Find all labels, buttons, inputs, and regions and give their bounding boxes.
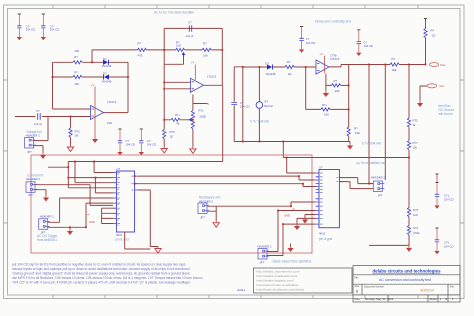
svg-text:LT1013: LT1013 xyxy=(207,75,217,79)
svg-text:47E: 47E xyxy=(74,49,79,53)
svg-text:+V: +V xyxy=(292,207,296,211)
svg-text:GND: GND xyxy=(284,214,290,218)
svg-text:Diode and Continuity test: Diode and Continuity test xyxy=(315,19,351,23)
svg-text:R?: R? xyxy=(334,79,338,83)
svg-text:47E: 47E xyxy=(138,54,143,58)
svg-text:R?7: R?7 xyxy=(413,141,419,145)
svg-text:HEADER 2: HEADER 2 xyxy=(371,175,385,179)
svg-text:1E: 1E xyxy=(288,72,292,76)
svg-text:10K: 10K xyxy=(176,44,181,48)
svg-text:Buzzer: Buzzer xyxy=(265,104,274,108)
svg-text:0.7V 1N4148: 0.7V 1N4148 xyxy=(250,120,269,124)
svg-text:104 CD: 104 CD xyxy=(26,28,35,32)
svg-text:U?: U? xyxy=(319,166,323,170)
svg-text:http;//opencircuits.com/delabs: http;//opencircuits.com/delabs/ xyxy=(257,283,299,287)
svg-text:1N4148: 1N4148 xyxy=(266,72,276,76)
svg-text:JP?: JP? xyxy=(200,216,205,220)
svg-text:1M: 1M xyxy=(75,134,80,138)
svg-text:10k: 10k xyxy=(413,146,418,150)
svg-text:Monday, May 31, 2004: Monday, May 31, 2004 xyxy=(365,297,394,301)
svg-text:JP?: JP? xyxy=(378,194,383,198)
svg-text:1uF pl: 1uF pl xyxy=(186,34,194,38)
svg-text:+V: +V xyxy=(87,212,91,216)
svg-text:Out-: Out- xyxy=(440,84,445,88)
svg-text:R?4: R?4 xyxy=(413,226,419,230)
svg-text:HEADER 2: HEADER 2 xyxy=(26,177,40,181)
svg-text:R?: R? xyxy=(74,71,78,75)
svg-text:0.7V 1N4148: 0.7V 1N4148 xyxy=(362,142,381,146)
svg-text:104 CD: 104 CD xyxy=(444,198,453,202)
svg-text:R?6: R?6 xyxy=(170,130,176,134)
svg-text:+V: +V xyxy=(320,52,324,56)
svg-text:HEADER 2: HEADER 2 xyxy=(26,134,40,138)
svg-text:http;//feeds.feedburner.com/de: http;//feeds.feedburner.com/delabs xyxy=(257,288,305,292)
svg-text:Sheet: Sheet xyxy=(430,297,438,301)
svg-text:R?+: R?+ xyxy=(175,113,181,117)
svg-text:1E: 1E xyxy=(432,34,436,38)
svg-text:1N4148: 1N4148 xyxy=(102,64,112,68)
svg-text:Date:: Date: xyxy=(355,298,361,301)
svg-text:D?: D? xyxy=(103,57,107,61)
svg-text:1uF pl: 1uF pl xyxy=(34,122,42,126)
svg-text:delabs: delabs xyxy=(237,288,246,292)
svg-text:"analog ground" and "digital g: "analog ground" and "digital ground" mus… xyxy=(12,272,191,276)
svg-text:will sound: will sound xyxy=(439,112,453,116)
svg-text:10K: 10K xyxy=(324,113,329,117)
svg-text:10E: 10E xyxy=(107,121,112,125)
svg-text:GND: GND xyxy=(89,220,95,224)
svg-text:10E: 10E xyxy=(392,68,397,72)
svg-text:+V: +V xyxy=(91,83,95,87)
svg-text:R?: R? xyxy=(138,42,142,46)
svg-text:C?: C? xyxy=(188,20,192,24)
svg-text:delabs circuits and technologi: delabs circuits and technologies xyxy=(372,268,441,273)
svg-text:http;//delabs.blogspot.com/: http;//delabs.blogspot.com/ xyxy=(257,279,294,283)
svg-text:unused inputs of logic and opa: unused inputs of logic and opamps pull u… xyxy=(12,267,190,271)
svg-text:U?: U? xyxy=(117,167,121,171)
svg-text:JP?: JP? xyxy=(27,150,32,154)
svg-text:R?: R? xyxy=(287,60,291,64)
svg-text:AC to DC Precision Rectifier: AC to DC Precision Rectifier xyxy=(154,11,195,15)
svg-text:Document Number: Document Number xyxy=(364,286,384,289)
svg-text:104 CD: 104 CD xyxy=(50,28,59,32)
svg-text:Diode Select from del00011: Diode Select from del00011 xyxy=(273,260,312,264)
svg-text:C?: C? xyxy=(36,109,40,113)
svg-text:104 CD: 104 CD xyxy=(126,143,135,147)
svg-text:JP?: JP? xyxy=(28,193,33,197)
svg-text:HEADER 2: HEADER 2 xyxy=(258,245,272,249)
svg-text:from del00011: from del00011 xyxy=(37,238,57,242)
svg-text:del20016: del20016 xyxy=(420,288,434,292)
svg-text:47E: 47E xyxy=(74,82,79,86)
svg-text:HEADER 2: HEADER 2 xyxy=(40,214,54,218)
svg-text:R?: R? xyxy=(392,57,396,61)
svg-text:op 7in in addition use: op 7in in addition use xyxy=(356,161,386,165)
svg-text:put 104 CD cap for all ICs fro: put 104 CD cap for all ICs from positive… xyxy=(12,263,186,267)
svg-text:4016: 4016 xyxy=(116,233,123,237)
svg-text:D?: D? xyxy=(103,72,107,76)
svg-text:AC conversion and continuity t: AC conversion and continuity test xyxy=(379,278,431,282)
svg-text:1E: 1E xyxy=(170,135,174,139)
svg-text:10K: 10K xyxy=(203,54,208,58)
svg-text:104 CD: 104 CD xyxy=(306,41,315,45)
svg-text:R?: R? xyxy=(74,55,78,59)
svg-text:Size: Size xyxy=(355,285,360,288)
svg-text:LT1013: LT1013 xyxy=(107,100,117,104)
svg-text:104 CD: 104 CD xyxy=(240,105,249,109)
svg-text:4016: 4016 xyxy=(319,232,326,236)
svg-text:pin 8 gnd: pin 8 gnd xyxy=(115,238,128,242)
svg-text:10E: 10E xyxy=(355,131,360,135)
svg-text:use MFR 1% for all Resistors,: use MFR 1% for all Resistors, 10E means … xyxy=(12,276,203,280)
svg-text:R?: R? xyxy=(354,127,358,131)
svg-text:of: of xyxy=(445,297,448,301)
svg-text:http;//delabs.emailworks.com/: http;//delabs.emailworks.com/ xyxy=(257,274,298,278)
svg-text:http;//delabs_experiments.com/: http;//delabs_experiments.com/ xyxy=(257,270,300,274)
svg-text:104 CD: 104 CD xyxy=(147,143,156,147)
svg-text:R?2: R?2 xyxy=(413,119,419,123)
svg-text:Out+: Out+ xyxy=(440,63,446,67)
svg-text:"474 CD" is 47 with 4 zeros pF: "474 CD" is 47 with 4 zeros pF, 470000 p… xyxy=(12,281,191,285)
svg-text:D?: D? xyxy=(265,62,269,66)
svg-text:100E: 100E xyxy=(200,115,207,119)
svg-text:104 CD: 104 CD xyxy=(364,44,373,48)
svg-text:+V: +V xyxy=(191,61,195,65)
svg-text:470E: 470E xyxy=(413,231,420,235)
svg-text:1k8: 1k8 xyxy=(413,213,418,217)
svg-text:pin 8 gnd: pin 8 gnd xyxy=(319,237,332,241)
svg-text:R?1: R?1 xyxy=(199,109,205,113)
svg-text:R?+: R?+ xyxy=(322,103,328,107)
svg-text:R?: R? xyxy=(203,42,207,46)
svg-text:R?4: R?4 xyxy=(413,208,419,212)
svg-text:1N4148: 1N4148 xyxy=(102,79,112,83)
svg-text:JP?: JP? xyxy=(260,261,265,265)
svg-text:10E: 10E xyxy=(335,89,340,93)
svg-text:LT1013: LT1013 xyxy=(330,57,340,61)
svg-text:-V: -V xyxy=(207,102,210,106)
svg-text:Title: Title xyxy=(354,277,359,280)
svg-text:104 CD: 104 CD xyxy=(444,245,453,249)
svg-text:R?: R? xyxy=(431,29,435,33)
